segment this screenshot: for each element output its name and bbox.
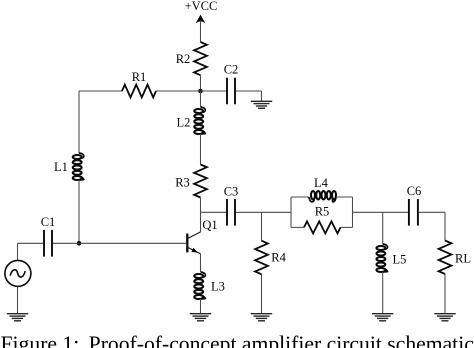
svg-text:L5: L5 bbox=[393, 252, 407, 266]
wire bbox=[78, 180, 80, 243]
wire bbox=[382, 272, 384, 314]
node B (input junction dot) bbox=[77, 241, 82, 246]
svg-text:R4: R4 bbox=[271, 251, 286, 265]
wire bbox=[236, 90, 262, 92]
inductor L2 bbox=[201, 107, 206, 112]
svg-text:R3: R3 bbox=[175, 176, 190, 190]
wire bbox=[261, 274, 263, 313]
ground (R4) bbox=[251, 313, 272, 315]
wire bbox=[17, 243, 19, 260]
capacitor C3 bbox=[226, 199, 228, 226]
ground (RL) bbox=[434, 313, 455, 315]
resistor RL bbox=[439, 241, 452, 275]
svg-text:L1: L1 bbox=[54, 160, 68, 174]
svg-text:R1: R1 bbox=[132, 70, 147, 84]
wire bbox=[444, 212, 446, 240]
wire bbox=[79, 242, 186, 244]
svg-text:R5: R5 bbox=[315, 205, 330, 219]
wire bbox=[18, 242, 44, 244]
wire bbox=[200, 254, 202, 272]
svg-text:RL: RL bbox=[455, 252, 471, 266]
wire bbox=[352, 197, 354, 227]
resistor R2 bbox=[194, 42, 207, 75]
wire bbox=[78, 91, 80, 153]
wire bbox=[444, 274, 446, 314]
wire bbox=[53, 242, 79, 244]
wire bbox=[200, 75, 202, 91]
wire bbox=[353, 211, 409, 213]
wire bbox=[418, 211, 445, 213]
wire bbox=[201, 211, 227, 213]
inductor L3 bbox=[201, 272, 206, 277]
capacitor C1 bbox=[43, 230, 45, 257]
node A (top junction dot) bbox=[198, 89, 203, 94]
svg-text:C2: C2 bbox=[224, 63, 239, 77]
inductor L1 bbox=[79, 153, 84, 158]
svg-text:R2: R2 bbox=[176, 52, 191, 66]
wire bbox=[290, 197, 292, 227]
wire bbox=[200, 21, 202, 43]
wire bbox=[236, 211, 291, 213]
ground (emitter) bbox=[190, 313, 211, 315]
svg-text:C1: C1 bbox=[41, 215, 56, 229]
wire bbox=[261, 212, 263, 240]
wire bbox=[200, 91, 202, 107]
svg-text:L4: L4 bbox=[314, 176, 329, 190]
ground (L5) bbox=[372, 313, 393, 315]
svg-text:C6: C6 bbox=[407, 184, 422, 198]
svg-text:+VCC: +VCC bbox=[185, 0, 218, 13]
wire bbox=[200, 299, 202, 314]
resistor R5 bbox=[304, 221, 341, 233]
capacitor C6 bbox=[408, 199, 410, 226]
wire bbox=[341, 226, 353, 228]
wire bbox=[79, 90, 122, 92]
wire bbox=[382, 212, 384, 244]
wire bbox=[200, 198, 202, 232]
ground (C2 right) bbox=[251, 100, 272, 102]
capacitor C2 bbox=[226, 78, 228, 105]
resistor R4 bbox=[255, 241, 268, 275]
svg-text:Q1: Q1 bbox=[202, 218, 217, 232]
wire bbox=[291, 196, 309, 198]
wire bbox=[336, 196, 353, 198]
svg-text:L2: L2 bbox=[177, 116, 191, 130]
svg-text:C3: C3 bbox=[224, 185, 239, 199]
VCC arrow bbox=[196, 15, 206, 24]
resistor R3 bbox=[194, 165, 207, 198]
inductor L5 bbox=[383, 244, 388, 249]
wire bbox=[17, 287, 19, 314]
transistor Q1 bbox=[186, 234, 188, 253]
svg-text:L3: L3 bbox=[211, 280, 225, 294]
ground (source) bbox=[7, 313, 28, 315]
inductor L4 bbox=[309, 197, 314, 202]
wire bbox=[200, 134, 202, 165]
resistor R1 bbox=[122, 85, 156, 98]
source V1 (sinusoidal) bbox=[5, 260, 31, 286]
svg-text:Figure 1: Proof-of-concept amp: Figure 1: Proof-of-concept amplifier cir… bbox=[1, 332, 474, 348]
wire bbox=[156, 90, 226, 92]
wire bbox=[291, 226, 304, 228]
wire bbox=[261, 91, 263, 101]
